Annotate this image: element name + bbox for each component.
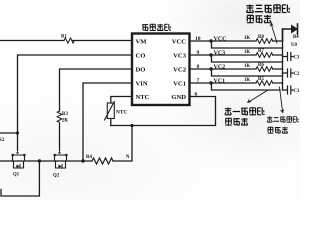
label 正极端 cell2 positive terminal xyxy=(268,127,288,133)
capacitor C2 xyxy=(283,69,294,77)
svg-text:9: 9 xyxy=(197,50,200,56)
net name labels right of taps xyxy=(214,36,227,84)
svg-text:R2: R2 xyxy=(0,138,5,143)
svg-text:VIN: VIN xyxy=(136,81,148,88)
wire VC2 companion tap xyxy=(212,69,283,76)
wire VCC companion tap down-right xyxy=(212,41,283,48)
transistor Q1 xyxy=(12,151,26,168)
wire NTC pin to thermistor xyxy=(111,97,132,104)
node Rs-riser top xyxy=(130,124,133,127)
node VC1 tap xyxy=(209,81,212,84)
wire R3 to Q2 gate xyxy=(59,124,61,151)
label 正极端 cell3 positive terminal xyxy=(247,15,271,23)
svg-text:1K: 1K xyxy=(244,64,250,69)
svg-text:VC2: VC2 xyxy=(173,67,187,74)
svg-text:C1: C1 xyxy=(294,89,300,94)
svg-text:7: 7 xyxy=(197,78,200,84)
svg-text:R6: R6 xyxy=(258,63,264,68)
svg-text:NTC: NTC xyxy=(136,94,150,101)
svg-text:VC3: VC3 xyxy=(214,50,226,56)
wire Rs to GND rail riser xyxy=(113,126,132,162)
diode D at pack+ xyxy=(291,24,298,34)
svg-text:U0: U0 xyxy=(291,43,297,48)
resistor R7 on VC3 row xyxy=(256,53,273,58)
svg-text:VM: VM xyxy=(136,39,148,46)
svg-text:NTC: NTC xyxy=(116,110,127,116)
wire VIN net: chip VIN pin left then down to sense node xyxy=(83,83,132,161)
svg-text:C2: C2 xyxy=(294,72,300,77)
resistor R1 xyxy=(64,38,74,43)
svg-text:GND: GND xyxy=(171,94,186,101)
svg-text:R7: R7 xyxy=(258,49,264,54)
wire VC1 pin7 row xyxy=(190,82,283,84)
label 第二锂电池 cell2 xyxy=(267,116,299,122)
wire left tap at y=133 xyxy=(0,132,18,134)
svg-text:R4: R4 xyxy=(86,155,92,160)
label 正极端 cell1 positive terminal xyxy=(225,118,247,125)
svg-text:6: 6 xyxy=(195,92,198,98)
resistor R6 on VC2 row xyxy=(256,67,273,72)
resistor R8 on VCC row xyxy=(256,39,273,44)
wire main bottom: B- to Q1 xyxy=(0,160,13,162)
node VCC tap xyxy=(209,39,212,42)
svg-text:CO: CO xyxy=(136,53,146,60)
label 第三锂电池 cell3 xyxy=(246,4,290,12)
svg-text:2K: 2K xyxy=(62,119,68,124)
svg-text:R1: R1 xyxy=(61,35,67,40)
wire right stack rail xyxy=(282,29,284,90)
svg-text:C3: C3 xyxy=(294,56,300,61)
svg-text:VC3: VC3 xyxy=(173,53,187,60)
svg-text:N: N xyxy=(126,155,130,160)
wire B- loop bottom xyxy=(1,161,39,196)
arrow to cell1 label xyxy=(250,90,269,102)
svg-text:1K: 1K xyxy=(244,78,250,83)
arrow to cell3 label xyxy=(272,25,278,43)
svg-text:8: 8 xyxy=(197,64,200,70)
resistor R4 sense xyxy=(92,158,113,164)
svg-text:VCC: VCC xyxy=(172,39,187,46)
svg-text:VCC: VCC xyxy=(214,36,227,42)
chip pin name labels xyxy=(136,39,187,102)
wire VC1 companion tap xyxy=(212,83,281,90)
wire VCC up to pack diode xyxy=(283,29,292,41)
wire VM net: left rail to VM pin xyxy=(0,40,132,42)
svg-text:10: 10 xyxy=(195,36,201,42)
svg-text:B4: B4 xyxy=(293,35,299,40)
wire VCC pin10 row xyxy=(190,40,283,42)
resistor R3 xyxy=(57,111,62,124)
svg-text:1K: 1K xyxy=(244,36,250,41)
label 控制芯片 chip title xyxy=(142,24,171,31)
node Q1-Q2 midpoint xyxy=(38,159,41,162)
wire GND net: chip GND pin right, down, left rail to thermistor xyxy=(111,97,216,126)
thermistor RT NTC xyxy=(105,102,115,121)
svg-text:Q2: Q2 xyxy=(53,174,60,179)
small component labels xyxy=(0,35,300,179)
node VC3 tap xyxy=(209,53,212,56)
capacitor C1 xyxy=(283,86,294,94)
wire Q2 to sense node xyxy=(56,160,92,162)
node VIN/Rs junction xyxy=(81,159,84,162)
svg-text:1K: 1K xyxy=(244,50,250,55)
control chip U1 box xyxy=(132,34,190,106)
wire VC2 pin8 row xyxy=(190,68,283,70)
arrow to cell2 label xyxy=(280,87,283,111)
pin numbers xyxy=(195,36,201,98)
svg-text:DO: DO xyxy=(136,67,146,74)
svg-text:R8: R8 xyxy=(258,35,264,40)
svg-text:Q1: Q1 xyxy=(13,173,20,178)
svg-text:VC2: VC2 xyxy=(214,64,226,70)
node junction CO/left tap xyxy=(16,131,19,134)
svg-text:R3: R3 xyxy=(62,112,68,117)
transistor Q2 xyxy=(54,151,68,168)
svg-text:R5: R5 xyxy=(258,77,264,82)
resistor R5 on VC1 row xyxy=(256,81,273,86)
svg-text:VC1: VC1 xyxy=(214,78,226,84)
label 第一锂电池 cell1 xyxy=(225,107,265,114)
wire VC3 pin9 row xyxy=(190,54,283,56)
svg-text:VC1: VC1 xyxy=(173,81,186,88)
wire VC3 companion tap xyxy=(212,55,283,62)
node VC2 tap xyxy=(209,67,212,70)
wire Q1 to Q2 xyxy=(13,160,57,162)
wire DO net: chip DO pin left then down to R3 xyxy=(60,69,133,111)
wire thermistor to bottom rail xyxy=(110,119,112,126)
wire CO net: chip CO pin left then down to Q1 gate xyxy=(18,55,133,151)
capacitor C3 xyxy=(283,53,294,61)
